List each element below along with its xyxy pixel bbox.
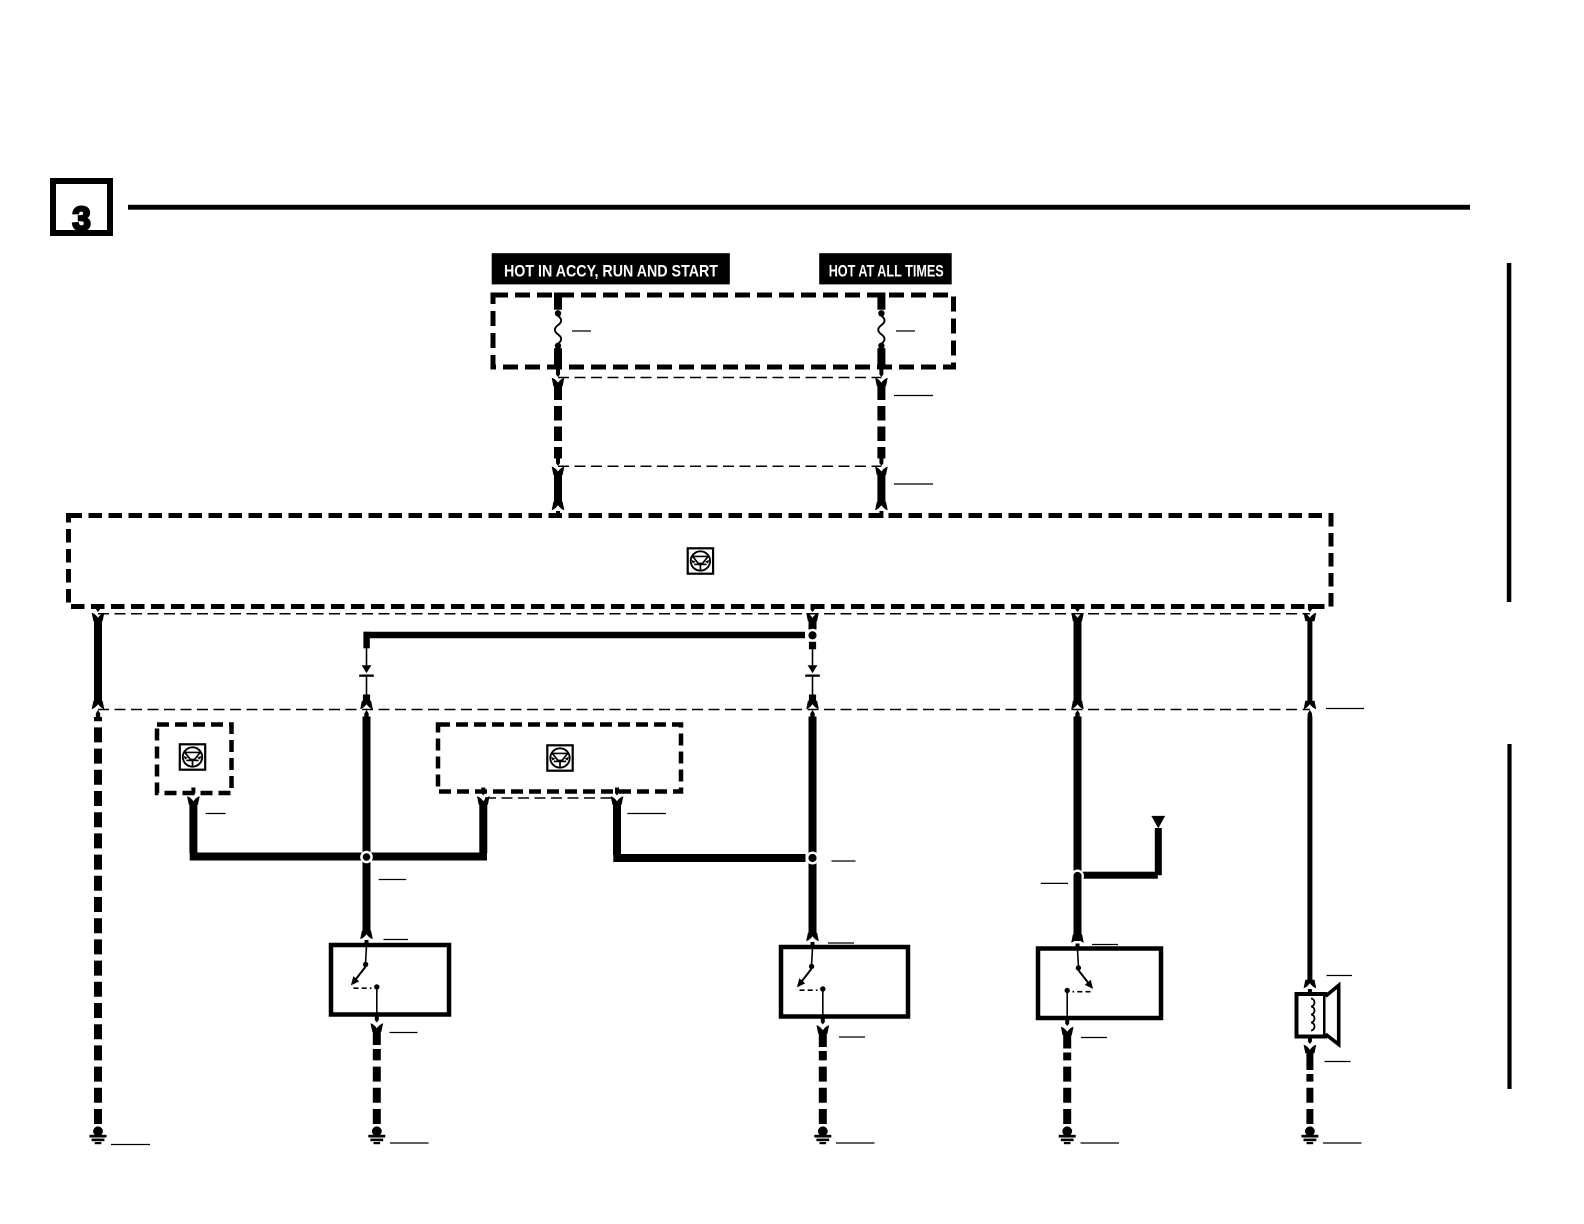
antenna lead vertical — [1155, 828, 1162, 875]
middle box exit connector right — [611, 788, 624, 805]
amplifier middle icon — [547, 745, 572, 770]
wire 3 down to switch 2 — [809, 717, 817, 935]
connector line A — [558, 377, 881, 379]
connector into radio box right — [875, 502, 888, 518]
diode right branch — [805, 665, 820, 677]
connector pair right at line A — [875, 369, 888, 386]
wire line B to radio box left — [554, 474, 562, 503]
connector line C — [98, 709, 1310, 711]
ground G5 label line — [1323, 1142, 1362, 1144]
middle box exit connector left — [477, 788, 490, 805]
switch 3 contact (mirrored) — [1065, 950, 1094, 1023]
label line right of junction — [832, 860, 856, 862]
right margin bar upper — [1507, 263, 1512, 602]
radio exit connector pin 1 — [92, 604, 105, 621]
wire fuse1 to line B (dashed) — [554, 386, 562, 459]
speaker input label line — [1327, 975, 1353, 977]
bus wire horizontal run — [364, 632, 806, 638]
connector line B — [558, 465, 881, 467]
fuse 2 value label line — [896, 330, 915, 332]
wire pin3 down to line C — [1074, 620, 1082, 702]
fuse 2 — [877, 293, 885, 370]
wire thin segment right branch lower — [812, 676, 814, 695]
left cross run — [190, 853, 487, 861]
amplifier box left (dashed) — [157, 725, 232, 794]
antenna lead horizontal — [1074, 872, 1158, 879]
switch 3 ground wire (dashed) — [1063, 1053, 1071, 1125]
wire 1 ground run (dashed) — [94, 717, 102, 1124]
bus wire left corner stub — [363, 632, 369, 649]
line C connector at wire 1 — [92, 701, 105, 719]
svg-text:HOT AT ALL TIMES: HOT AT ALL TIMES — [829, 261, 944, 280]
switch 1 ground wire (dashed) — [373, 1049, 381, 1124]
ground G1 — [90, 1126, 107, 1144]
stub below junction — [809, 642, 816, 650]
radio exit connector pin 4 — [1304, 604, 1317, 621]
ground G2 — [368, 1126, 385, 1144]
svg-text:HOT IN ACCY, RUN AND START: HOT IN ACCY, RUN AND START — [504, 261, 719, 280]
wire amp middle right exit down — [613, 804, 621, 855]
label line right of line A — [894, 395, 933, 397]
ground G2 label line — [390, 1142, 429, 1144]
switch 2 input connector — [806, 933, 819, 949]
switch 1 input connector — [360, 931, 373, 947]
connector pair left at line B — [552, 458, 565, 475]
speaker coil — [1311, 999, 1315, 1031]
junction dot at wire 4 — [1071, 870, 1084, 883]
wire pin2 down to junction — [809, 620, 817, 630]
connector strip under middle box — [485, 797, 615, 799]
switch 3 input connector — [1071, 934, 1084, 950]
label HOT AT ALL TIMES — [819, 253, 952, 284]
switch 2 ground wire (dashed) — [819, 1051, 827, 1124]
wire thin segment right branch — [812, 649, 814, 665]
wire thin segment left branch lower — [366, 676, 368, 695]
wire 2 down to switch 1 — [363, 717, 371, 933]
wire pin4 down to line C — [1307, 620, 1312, 702]
switch 2 box — [781, 947, 908, 1017]
label HOT IN ACCY RUN AND START — [492, 253, 730, 284]
radio exit connector pin 2 — [806, 604, 819, 621]
wire fuse2 to line B (dashed) — [877, 386, 885, 459]
speaker output connector — [1304, 1036, 1317, 1053]
line C connector at wire 2 — [360, 701, 373, 719]
wire amp left exit down — [189, 804, 197, 853]
fuse 1 value label line — [572, 330, 591, 332]
label line right of line C — [1326, 708, 1364, 710]
fuse 1 — [554, 293, 562, 370]
line C connector at wire 5 — [1304, 701, 1317, 719]
switch 2 contact — [797, 948, 826, 1021]
speaker ground wire (dashed) — [1306, 1074, 1313, 1124]
switch 3 input label line — [1092, 944, 1118, 946]
diode left branch — [359, 665, 374, 677]
junction dot at wire 3 — [806, 852, 819, 865]
ground G5 — [1301, 1126, 1318, 1144]
connector strip line under radio box — [98, 613, 1310, 615]
switch 3 output label line — [1081, 1037, 1107, 1039]
switch 1 output stub — [373, 1029, 381, 1045]
switch 1 input label line — [384, 939, 409, 941]
antenna symbol — [1151, 816, 1165, 829]
switch 2 output connector — [817, 1017, 830, 1034]
junction dot at pin2 — [806, 629, 819, 642]
amplifier box middle (dashed) — [438, 725, 681, 792]
junction ring at wire 2 — [360, 851, 373, 864]
label line below junction — [379, 879, 407, 881]
label line right of line B — [894, 483, 933, 485]
wire thin segment left branch — [366, 648, 368, 665]
speaker output stub — [1306, 1052, 1313, 1070]
switch 1 output label line — [390, 1032, 418, 1034]
switch 1 contact — [351, 946, 380, 1019]
title rule — [128, 205, 1470, 210]
svg-text:3: 3 — [72, 200, 90, 237]
ground G4 label line — [1081, 1142, 1120, 1144]
right cross run — [613, 854, 805, 862]
thick stub right branch — [809, 695, 816, 702]
wire line B to radio box right — [877, 474, 885, 503]
ground G3 — [814, 1126, 831, 1144]
label line left of antenna junction — [1041, 882, 1068, 884]
connector into radio box left — [552, 502, 565, 518]
line C connector at wire 4 — [1071, 701, 1084, 719]
ground G1 label line — [111, 1144, 150, 1146]
ground G4 — [1059, 1126, 1076, 1144]
switch 1 output connector — [371, 1015, 384, 1032]
speaker output label line — [1325, 1061, 1351, 1063]
thick stub left branch — [363, 695, 370, 702]
middle box right exit label line — [627, 813, 666, 815]
line C connector at wire 3 — [806, 701, 819, 719]
radio icon — [688, 548, 713, 573]
fuse box (dashed) — [493, 295, 954, 367]
amplifier left icon — [180, 744, 205, 769]
switch 2 output stub — [819, 1031, 827, 1047]
switch 3 box — [1038, 949, 1161, 1019]
connector pair left at line A — [552, 369, 565, 386]
ground G3 label line — [836, 1142, 875, 1144]
page index box 3 — [53, 181, 110, 233]
wire pin1 down to line C — [94, 620, 102, 702]
radio unit box (dashed) — [69, 516, 1332, 607]
switch 3 output stub — [1063, 1033, 1071, 1049]
speaker coil box — [1297, 994, 1326, 1037]
switch 1 box — [331, 945, 449, 1015]
speaker horn — [1326, 985, 1339, 1044]
connector pair right at line B — [875, 458, 888, 475]
wire amp middle left exit down — [479, 804, 487, 853]
speaker input connector — [1304, 980, 1317, 996]
wire 4 below junction — [1074, 876, 1082, 936]
switch 3 output connector — [1061, 1018, 1074, 1035]
switch 2 input label line — [828, 942, 854, 944]
switch 2 output label line — [839, 1036, 865, 1038]
right margin bar lower — [1507, 744, 1511, 1089]
wire 4 down to switch 3 — [1074, 717, 1082, 942]
amplifier left exit connector — [187, 788, 200, 805]
wire 5 down to speaker — [1307, 717, 1312, 981]
amplifier left exit label line — [206, 813, 226, 815]
radio exit connector pin 3 — [1071, 604, 1084, 621]
